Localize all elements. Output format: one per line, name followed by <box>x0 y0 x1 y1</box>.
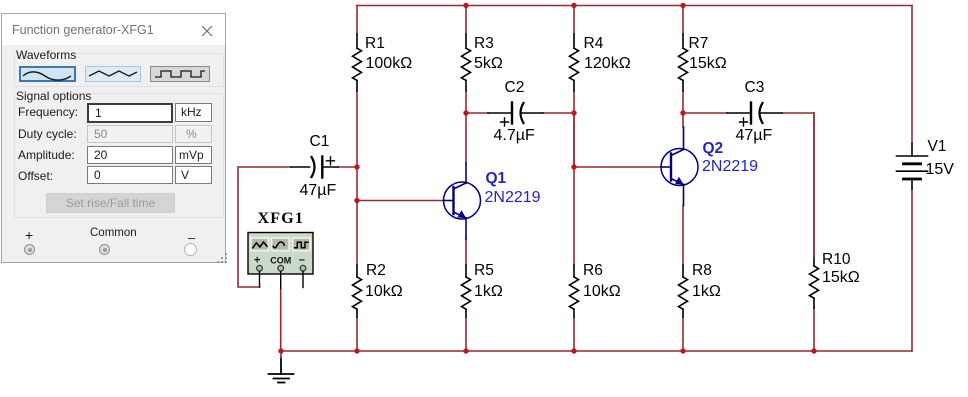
resistor R6 <box>570 265 579 317</box>
junction VCC/R4 <box>571 3 576 8</box>
ground <box>269 358 294 383</box>
terminal - circle <box>184 243 197 256</box>
groupbox Waveforms <box>14 53 224 87</box>
waveform button square <box>150 66 210 82</box>
terminal + label <box>25 227 33 243</box>
label V1 <box>928 139 947 155</box>
label C3 <box>745 80 765 96</box>
transistor Q1 <box>444 163 481 239</box>
battery V1 <box>897 144 928 190</box>
resistor R3 <box>462 34 471 91</box>
junction C1 / R1 / R2 <box>354 164 359 169</box>
dialog title bar <box>2 14 225 45</box>
waveform button triangle <box>85 66 141 82</box>
wire R4/R6 column <box>573 6 575 352</box>
waveform button sine (selected) <box>19 66 76 82</box>
wire R1 column <box>356 6 358 352</box>
wire R7/Q2 column <box>682 6 684 352</box>
junction rail/R6 <box>571 348 576 353</box>
terminal + circle <box>24 244 35 255</box>
svg-text:+: + <box>254 255 260 267</box>
label R1 <box>365 36 385 52</box>
transistor Q2 <box>661 127 698 206</box>
junction rail/R5 <box>463 348 468 353</box>
junction Q1 collector / C2 <box>463 110 468 115</box>
label R5 <box>474 263 494 279</box>
label C1 <box>310 134 330 150</box>
wire Q1 base net <box>357 200 444 202</box>
terminal Common circle <box>99 244 110 255</box>
wire right drop to V1 <box>911 6 913 144</box>
field Offset <box>18 169 53 183</box>
junction ground / COM <box>278 348 283 353</box>
label R6 <box>583 263 603 279</box>
resistor R2 <box>353 265 362 317</box>
resize grip <box>225 253 227 255</box>
dialog close button <box>201 25 213 37</box>
capacitor C1 <box>291 157 338 178</box>
wire bottom rail ground net <box>281 350 912 352</box>
label R7 <box>689 36 709 52</box>
label Q1 <box>486 171 507 187</box>
label R10 <box>822 252 850 268</box>
wire C2 coupling net <box>466 113 574 167</box>
dialog Function generator-XFG1 <box>1 13 226 263</box>
label R2 <box>366 263 386 279</box>
junction Q1 base tap <box>354 198 359 203</box>
resistor R8 <box>679 265 688 317</box>
wire V1 to bottom rail <box>911 189 913 351</box>
capacitor C3 <box>727 103 782 127</box>
resistor R5 <box>462 265 471 317</box>
junction Q2 base tap / R6 <box>571 164 576 169</box>
wire C3 output net <box>683 113 814 257</box>
svg-text:–: – <box>299 254 305 266</box>
resistor R4 <box>570 34 579 91</box>
junction Q2 collector / C3 / R7 <box>680 110 685 115</box>
wire R10 column <box>813 113 815 351</box>
field Amplitude <box>18 148 75 162</box>
resistor R10 <box>810 257 819 308</box>
label C2 <box>505 80 525 96</box>
label R3 <box>474 36 494 52</box>
junction rail/R10 <box>811 348 816 353</box>
junction rail/R8 <box>680 348 685 353</box>
resistor R7 <box>679 34 688 91</box>
capacitor C2 <box>488 103 543 127</box>
wire top rail VCC <box>357 5 912 7</box>
label XFG1 <box>258 211 305 227</box>
resistor R1 <box>353 34 362 91</box>
wire Q2 base net <box>574 166 661 168</box>
wire C1 input net <box>238 167 357 287</box>
label R8 <box>692 263 712 279</box>
button Set rise/Fall time (disabled) <box>46 193 175 213</box>
junction VCC/R3 <box>463 3 468 8</box>
label Q2 <box>703 141 724 157</box>
terminal Common label <box>90 227 137 239</box>
field Duty cycle (disabled) <box>18 127 77 141</box>
XFG1 instrument icon <box>248 233 313 291</box>
junction rail/R2 <box>354 348 359 353</box>
wire XFG1 COM to ground rail <box>280 290 282 351</box>
junction VCC/R7 <box>680 3 685 8</box>
label R4 <box>584 36 604 52</box>
groupbox Signal options <box>14 93 224 218</box>
terminal - label <box>188 230 195 245</box>
svg-text:COM: COM <box>270 256 291 266</box>
field Frequency <box>18 105 78 119</box>
junction C2 / R4 <box>571 110 576 115</box>
wire R3/Q1 column <box>465 6 467 352</box>
